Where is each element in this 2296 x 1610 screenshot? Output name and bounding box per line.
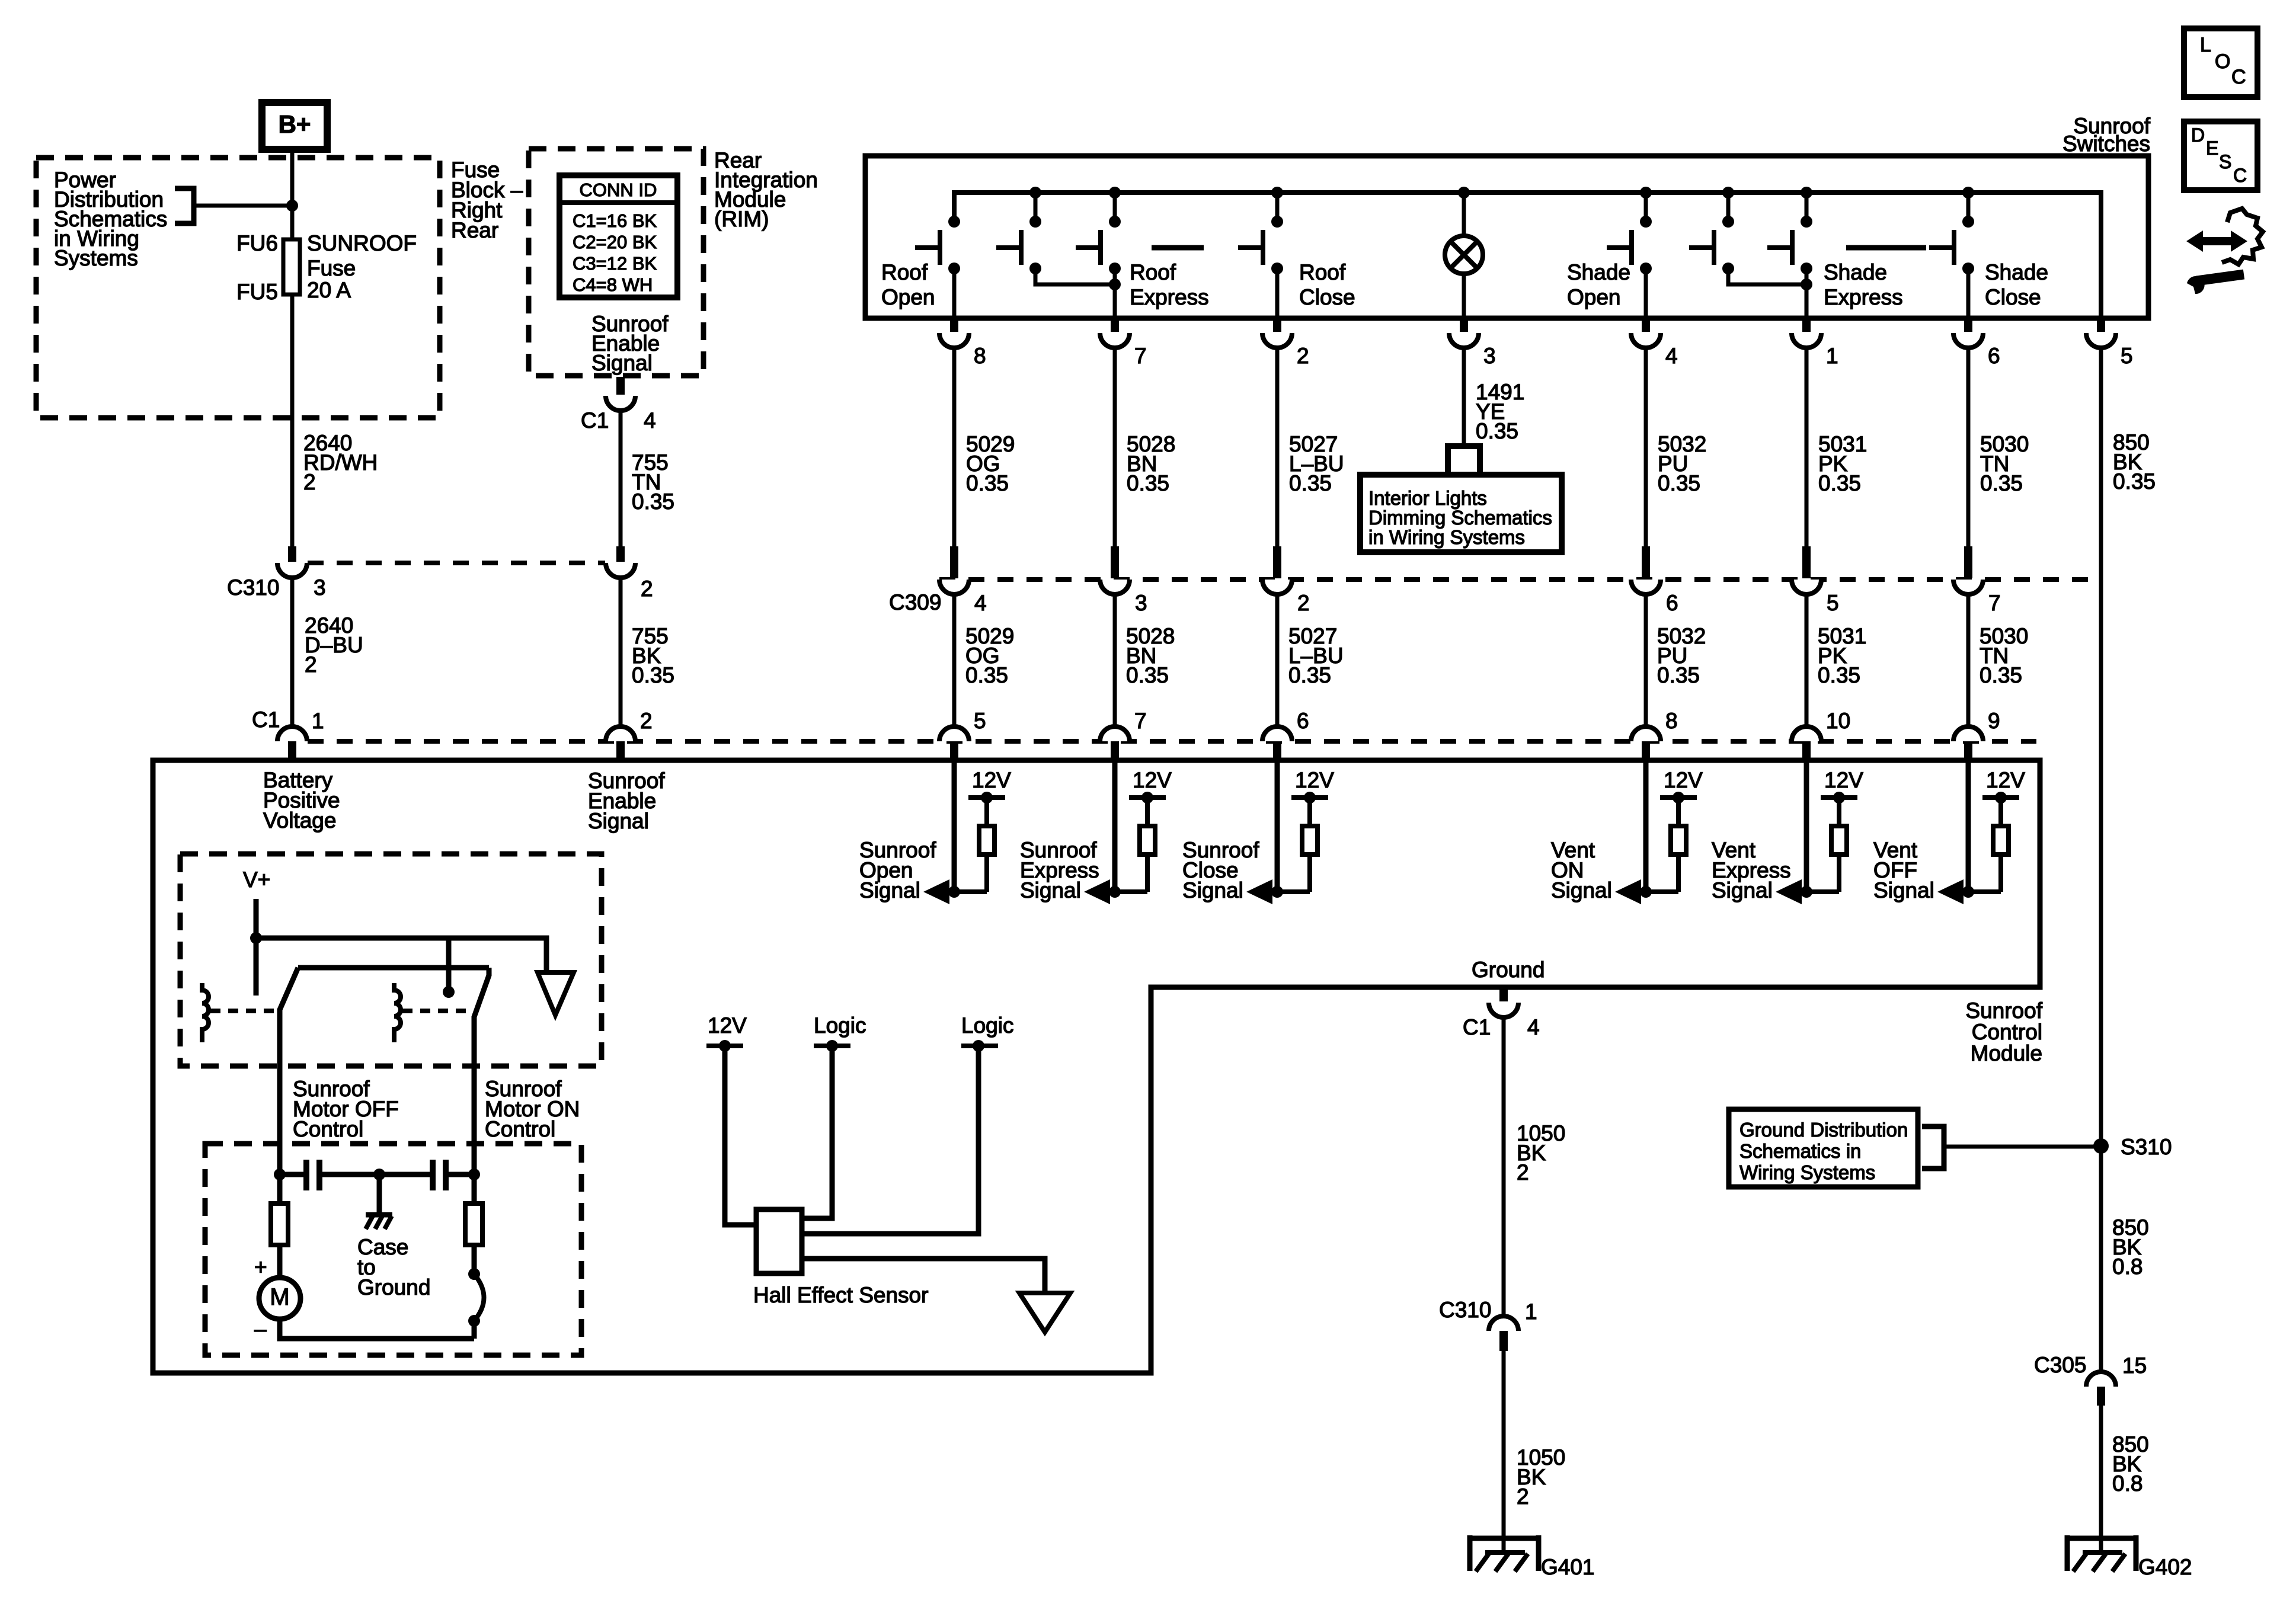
wire — [952, 348, 957, 546]
svg-text:Signal: Signal — [1873, 878, 1934, 902]
svg-text:3: 3 — [1135, 591, 1147, 615]
switch contact dots x=2916 — [1722, 216, 1734, 274]
svg-text:S: S — [2219, 151, 2231, 172]
svg-text:C1: C1 — [252, 708, 280, 732]
svg-text:Close: Close — [1299, 285, 1355, 309]
svg-text:Open: Open — [881, 285, 935, 309]
relay common bar — [298, 965, 489, 971]
connector C305 pin 15 — [2086, 1372, 2116, 1406]
svg-text:7: 7 — [1134, 709, 1147, 733]
svg-text:C305: C305 — [2034, 1353, 2086, 1377]
connector C1 pin 9 — [1953, 726, 1983, 759]
DESC icon box — [2184, 121, 2257, 190]
wire label 5029 OG row2 — [965, 624, 1014, 687]
svg-text:0.35: 0.35 — [965, 663, 1008, 687]
svg-text:2: 2 — [1297, 344, 1309, 368]
svg-text:C1: C1 — [1463, 1015, 1491, 1039]
svg-text:G402: G402 — [2138, 1555, 2192, 1579]
svg-text:C3=12 BK: C3=12 BK — [573, 253, 657, 274]
svg-text:Shade: Shade — [1985, 260, 2048, 284]
svg-text:0.35: 0.35 — [632, 489, 674, 514]
dashed line C1 row — [308, 739, 2036, 744]
wire — [952, 594, 957, 726]
wire label 5028 BN row2 — [1126, 624, 1175, 687]
wire label 1050 BK 2 lower — [1517, 1445, 1565, 1509]
mechanical link shade — [1846, 245, 1926, 251]
svg-text:Systems: Systems — [54, 246, 138, 270]
svg-text:2: 2 — [1517, 1484, 1529, 1509]
svg-text:1: 1 — [1826, 344, 1838, 368]
signal circuit Sunroof Express Signal — [1084, 760, 1166, 904]
signal circuit Sunroof Open Signal — [923, 760, 1005, 904]
label Case to Ground — [357, 1235, 430, 1299]
switch connector pin 2 — [1262, 318, 1292, 348]
case ground stub — [377, 1174, 382, 1214]
svg-text:6: 6 — [1988, 344, 2000, 368]
svg-text:9: 9 — [1988, 709, 2000, 733]
svg-text:0.35: 0.35 — [1818, 471, 1861, 495]
wire lamp to pointer — [1462, 348, 1466, 446]
junction dot — [286, 200, 298, 212]
connector C1 pin 2 — [606, 726, 635, 759]
switch connector pin 8 — [939, 318, 969, 348]
svg-text:Hall Effect Sensor: Hall Effect Sensor — [753, 1283, 928, 1307]
svg-text:Schematics in: Schematics in — [1739, 1140, 1861, 1162]
switch connector pin 6 — [1953, 318, 1983, 348]
switch connector pin 1 — [1792, 318, 1821, 348]
svg-text:0.8: 0.8 — [2112, 1471, 2142, 1496]
svg-text:+: + — [254, 1255, 267, 1279]
switch connector pin 5 — [2086, 318, 2116, 348]
svg-text:C: C — [2231, 66, 2246, 88]
connector C1 pin 7 — [1100, 726, 1130, 759]
bus junction dots — [1029, 187, 1974, 199]
wire — [1805, 594, 1809, 726]
svg-text:Shade: Shade — [1567, 260, 1630, 284]
connector C309 pin 5 — [1792, 546, 1821, 594]
svg-text:5: 5 — [2121, 344, 2133, 368]
svg-text:0.35: 0.35 — [1289, 471, 1332, 495]
switch actuator x=3048 — [1767, 230, 1792, 265]
junction dot center — [373, 1169, 385, 1180]
relay2 feed drop — [446, 938, 452, 988]
svg-text:Logic: Logic — [814, 1013, 866, 1038]
wire 2640 D-BU segment — [290, 578, 295, 726]
wire — [1275, 594, 1280, 726]
svg-text:Signal: Signal — [588, 809, 649, 833]
switch contact dots x=2155 — [1271, 216, 1283, 274]
svg-text:in Wiring Systems: in Wiring Systems — [1368, 526, 1525, 548]
wire fuse to C310 — [290, 295, 295, 546]
wire label 1491 YE — [1476, 380, 1524, 443]
label Sunroof Enable Signal (RIM) — [591, 312, 669, 375]
wire — [1113, 348, 1117, 546]
connector C1 pin 6 — [1262, 726, 1292, 759]
connector C1 pin 1 — [277, 726, 307, 759]
svg-text:12V: 12V — [972, 768, 1011, 792]
svg-text:Ground: Ground — [357, 1275, 430, 1299]
motor dashed box — [205, 1144, 581, 1355]
wire 1050 BK — [1502, 1017, 1506, 1319]
wire bracket to node — [194, 204, 292, 208]
wire V+ — [254, 899, 259, 996]
svg-text:0.35: 0.35 — [966, 471, 1009, 495]
svg-text:2: 2 — [640, 709, 653, 733]
svg-text:15: 15 — [2122, 1353, 2147, 1378]
motor bottom wire — [280, 1319, 474, 1339]
connector C1 pin 4 of RIM — [606, 377, 635, 411]
svg-text:12V: 12V — [1986, 768, 2025, 792]
Interior Lights Dimming box — [1360, 475, 1562, 552]
wire label 1050 BK 2 — [1517, 1121, 1565, 1185]
svg-text:L: L — [2200, 34, 2211, 56]
svg-text:Close: Close — [1985, 285, 2041, 309]
pointer bracket to interior lights box — [1448, 446, 1480, 474]
signal circuit Vent ON Signal — [1615, 760, 1697, 904]
switch labels — [881, 260, 935, 309]
switch contact dots x=2777 — [1640, 216, 1652, 274]
svg-text:O: O — [2215, 50, 2230, 73]
connector C310 pin 3 — [277, 546, 307, 578]
svg-text:C1=16 BK: C1=16 BK — [573, 210, 657, 231]
svg-text:0.35: 0.35 — [1288, 663, 1331, 687]
power node B+ — [262, 103, 327, 149]
motor M — [259, 1278, 300, 1319]
svg-text:Fuse: Fuse — [307, 256, 356, 280]
label SUNROOF Fuse 20 A — [307, 231, 417, 302]
svg-text:Interior Lights: Interior Lights — [1368, 487, 1487, 509]
svg-text:Open: Open — [1567, 285, 1621, 309]
wire label 5028 BN — [1127, 432, 1175, 495]
svg-text:B+: B+ — [279, 110, 311, 138]
svg-text:Express: Express — [1824, 285, 1903, 309]
label Sunroof Close Signal — [1182, 838, 1259, 902]
wire 1050 BK 2 lower — [1502, 1351, 1506, 1539]
svg-text:0.35: 0.35 — [1818, 663, 1860, 687]
wire label 850 BK 0.8 — [2112, 1215, 2149, 1279]
svg-text:2: 2 — [641, 577, 653, 601]
svg-text:S310: S310 — [2121, 1135, 2172, 1159]
svg-text:2: 2 — [1517, 1160, 1529, 1185]
svg-text:0.8: 0.8 — [2112, 1254, 2142, 1279]
svg-text:0.35: 0.35 — [1980, 663, 2022, 687]
wire 12V to hall — [725, 1046, 756, 1225]
connector C309 pin 7 — [1953, 546, 1983, 594]
LOC icon box — [2184, 28, 2257, 97]
fuse FU6/FU5 SUNROOF 20A — [283, 239, 300, 295]
svg-text:(RIM): (RIM) — [714, 207, 769, 231]
label Sunroof Switches — [2062, 114, 2151, 156]
svg-text:C310: C310 — [1439, 1298, 1491, 1322]
lamp drop wire — [1462, 193, 1466, 236]
svg-text:FU6: FU6 — [236, 231, 278, 255]
svg-text:0.35: 0.35 — [1980, 471, 2023, 495]
switch actuator x=1747 — [996, 230, 1021, 265]
wire label 850 BK 0.8 lower — [2112, 1432, 2149, 1496]
label Sunroof Motor OFF Control — [293, 1077, 399, 1141]
svg-text:0.35: 0.35 — [1126, 663, 1169, 687]
connector C1 pin 8 — [1631, 726, 1661, 759]
12V tap — [706, 1040, 743, 1052]
wire — [1644, 594, 1648, 726]
switch actuator x=2155 — [1238, 230, 1263, 265]
svg-text:Switches: Switches — [2062, 132, 2150, 156]
wire label 5032 PU — [1658, 432, 1706, 495]
wire label 5030 TN row2 — [1980, 624, 2028, 687]
label Battery Positive Voltage — [263, 768, 340, 833]
svg-text:4: 4 — [1665, 344, 1678, 368]
svg-text:12V: 12V — [1133, 768, 1172, 792]
capacitor C-left — [280, 1160, 379, 1190]
label Vent Express Signal — [1712, 838, 1791, 902]
chassis ground (case) — [366, 1215, 392, 1229]
relay2 blade — [474, 968, 489, 1174]
sunroof switches box — [865, 156, 2148, 318]
wire — [1966, 348, 1971, 546]
svg-text:C1: C1 — [581, 408, 609, 433]
wire label 5029 OG — [966, 432, 1015, 495]
connector C1 pin 4 (ground) — [1489, 987, 1518, 1017]
svg-text:20 A: 20 A — [307, 278, 351, 302]
svg-text:E: E — [2206, 137, 2218, 159]
svg-text:7: 7 — [1134, 344, 1147, 368]
connector C1 pin 5 — [939, 726, 969, 759]
svg-text:0.35: 0.35 — [1127, 471, 1169, 495]
svg-text:Signal: Signal — [1020, 878, 1081, 902]
svg-text:Logic: Logic — [961, 1013, 1013, 1038]
wire 755 BK segment — [619, 578, 623, 726]
wire 850 BK down right side — [2099, 348, 2103, 1372]
relay dashed box — [180, 854, 602, 1066]
svg-text:2: 2 — [303, 470, 316, 494]
junction dot V+ rail — [250, 932, 262, 944]
svg-text:8: 8 — [974, 344, 986, 368]
repair icon (arrow + wrench) — [2186, 209, 2263, 294]
Rear Integration Module dashed box — [529, 149, 703, 376]
hall effect sensor box — [756, 1209, 802, 1273]
relay1 blade — [280, 968, 298, 1174]
svg-text:7: 7 — [1988, 591, 2001, 615]
svg-text:Shade: Shade — [1824, 260, 1887, 284]
wire label 755 TN 0.35 — [632, 450, 674, 514]
label Fuse Block - Right Rear — [451, 158, 523, 242]
junction dot left — [274, 1169, 286, 1180]
svg-text:C4=8 WH: C4=8 WH — [573, 274, 653, 295]
resistor right — [465, 1174, 482, 1274]
shade express pair link — [1728, 268, 1806, 284]
connector C310 pin 1 — [1489, 1316, 1518, 1351]
switch blade (motor) — [468, 1268, 484, 1339]
logic1 tap — [814, 1040, 850, 1052]
ground triangle (module internal) — [538, 972, 574, 1015]
wire label 850 BK — [2113, 430, 2156, 494]
svg-text:3: 3 — [314, 575, 326, 600]
signal circuit Vent Express Signal — [1776, 760, 1857, 904]
svg-text:0.35: 0.35 — [1657, 663, 1700, 687]
switch actuator x=3321 — [1929, 230, 1954, 265]
svg-text:5: 5 — [974, 709, 986, 733]
connector C309 pin 4 — [939, 546, 969, 594]
ground G402 — [2067, 1535, 2136, 1571]
svg-text:6: 6 — [1297, 709, 1309, 733]
switch output wires — [954, 268, 1968, 318]
capacitor C-right — [379, 1160, 474, 1190]
svg-text:V+: V+ — [243, 868, 270, 892]
svg-text:12V: 12V — [708, 1013, 747, 1038]
lamp wire to box bottom — [1462, 274, 1466, 318]
sunroof control module box — [153, 760, 2040, 1373]
resistor left — [271, 1174, 288, 1278]
switch contact dots x=1610 — [948, 216, 960, 274]
switch actuator x=1610 — [915, 230, 940, 265]
svg-text:Control: Control — [485, 1117, 555, 1141]
relay link 1 (dashed) — [210, 1009, 274, 1013]
dashed line C310 row — [308, 561, 605, 565]
svg-text:1: 1 — [312, 709, 324, 733]
wire to S310 — [1944, 1145, 2101, 1149]
switch contact dots x=1747 — [1029, 216, 1041, 274]
svg-text:Rear: Rear — [451, 218, 498, 242]
switch contact dots x=1881 — [1109, 216, 1121, 274]
label Sunroof Express Signal — [1020, 838, 1099, 902]
splice S310 — [2093, 1138, 2109, 1154]
hall output to ground — [802, 1259, 1045, 1293]
connector C1 pin 10 — [1792, 726, 1821, 759]
wire label 5027 L–BU — [1289, 432, 1344, 495]
label Vent ON Signal — [1551, 838, 1612, 902]
switch actuator x=2777 — [1607, 230, 1632, 265]
connector C309 pin 2 — [1262, 546, 1292, 594]
switch contact dots x=3048 — [1801, 216, 1812, 274]
svg-text:0.35: 0.35 — [2113, 469, 2156, 494]
wire label 2640 D-BU 2 — [305, 613, 363, 677]
svg-text:4: 4 — [974, 591, 987, 615]
svg-text:Control: Control — [1972, 1020, 2042, 1044]
wire label 5031 PK row2 — [1818, 624, 1866, 687]
logic2 tap — [961, 1040, 998, 1052]
svg-text:C: C — [2233, 165, 2247, 186]
label Sunroof Open Signal — [859, 838, 936, 902]
svg-text:C310: C310 — [227, 575, 279, 600]
svg-text:Signal: Signal — [1712, 878, 1773, 902]
svg-text:Dimming Schematics: Dimming Schematics — [1368, 507, 1552, 529]
svg-text:Sunroof: Sunroof — [1965, 998, 2042, 1023]
svg-text:FU5: FU5 — [236, 280, 278, 304]
wire label 5031 PK — [1818, 432, 1867, 495]
wire label 5032 PU row2 — [1657, 624, 1706, 687]
svg-text:4: 4 — [1527, 1015, 1540, 1039]
svg-text:D: D — [2191, 124, 2205, 146]
lamp (interior light) — [1445, 236, 1483, 274]
bracket to Power Distribution — [175, 188, 194, 223]
svg-text:10: 10 — [1826, 709, 1850, 733]
svg-text:Ground Distribution: Ground Distribution — [1739, 1119, 1908, 1141]
svg-text:3: 3 — [1483, 344, 1496, 368]
wire — [1644, 348, 1648, 546]
svg-text:Signal: Signal — [859, 878, 920, 902]
svg-text:Wiring Systems: Wiring Systems — [1739, 1161, 1875, 1183]
svg-text:Roof: Roof — [1299, 260, 1346, 284]
relay coil 1 — [202, 983, 209, 1042]
svg-text:5: 5 — [1827, 591, 1839, 615]
label Vent OFF Signal — [1873, 838, 1934, 902]
label Interior Lights Dimming Schematics in Wiring Systems — [1368, 487, 1552, 548]
svg-text:6: 6 — [1666, 591, 1678, 615]
fuse block dashed box — [36, 158, 440, 418]
wire label 5030 TN — [1980, 432, 2029, 495]
label Sunroof Motor ON Control — [485, 1077, 580, 1141]
wire label 5027 L–BU row2 — [1288, 624, 1344, 687]
svg-text:12V: 12V — [1824, 768, 1863, 792]
label Sunroof Control Module — [1965, 998, 2042, 1065]
svg-text:0.35: 0.35 — [1658, 471, 1700, 495]
svg-text:1: 1 — [1525, 1299, 1537, 1324]
svg-text:Signal: Signal — [1551, 878, 1612, 902]
relay link 2 (dashed) — [402, 1009, 467, 1013]
svg-text:12V: 12V — [1295, 768, 1334, 792]
svg-text:Express: Express — [1130, 285, 1209, 309]
svg-text:12V: 12V — [1664, 768, 1703, 792]
switch actuator x=1881 — [1076, 230, 1101, 265]
svg-text:Signal: Signal — [1182, 878, 1243, 902]
wire — [1966, 594, 1971, 726]
label Sunroof Enable Signal — [588, 769, 665, 833]
switch connector pin 3 — [1449, 318, 1479, 348]
wire 755 down — [619, 410, 623, 546]
label Rear Integration Module (RIM) — [714, 148, 818, 231]
svg-text:Roof: Roof — [1130, 260, 1176, 284]
label Power Distribution Schematics in Wiring Systems — [54, 168, 167, 270]
svg-text:0.35: 0.35 — [632, 663, 674, 687]
wire — [1113, 594, 1117, 726]
svg-text:Voltage: Voltage — [263, 808, 336, 833]
Ground Distribution box — [1729, 1109, 1918, 1187]
svg-text:0.35: 0.35 — [1476, 419, 1518, 443]
svg-text:4: 4 — [644, 408, 656, 433]
wire — [1805, 348, 1809, 546]
wire logic2 to hall — [802, 1046, 978, 1234]
wire B+ to fuse — [290, 149, 295, 239]
wire — [1275, 348, 1280, 546]
relay coil 2 — [394, 983, 401, 1042]
wire logic1 to hall — [802, 1046, 832, 1218]
svg-text:C309: C309 — [889, 590, 941, 614]
ground triangle (hall) — [1019, 1293, 1070, 1332]
label Ground Distribution Schematics in Wiring Systems — [1739, 1119, 1908, 1183]
svg-text:8: 8 — [1665, 709, 1678, 733]
svg-text:SUNROOF: SUNROOF — [307, 231, 417, 255]
svg-text:Signal: Signal — [591, 351, 653, 375]
bus wire in switch box — [954, 193, 2101, 318]
svg-text:Module: Module — [1971, 1041, 2042, 1065]
CONN ID table — [559, 175, 677, 297]
svg-text:Control: Control — [293, 1117, 363, 1141]
V+ rail — [256, 938, 546, 972]
switch contact dots x=3321 — [1962, 216, 1974, 274]
roof express pair link — [1035, 268, 1115, 284]
mechanical link roof — [1152, 245, 1204, 251]
wire to G402 — [2099, 1406, 2103, 1539]
switch connector pin 7 — [1100, 318, 1130, 348]
svg-text:C2=20 BK: C2=20 BK — [573, 232, 657, 252]
dashed line C309 row — [939, 577, 2101, 582]
connector C309 pin 3 — [1100, 546, 1130, 594]
svg-text:M: M — [270, 1284, 289, 1310]
svg-text:2: 2 — [305, 652, 317, 677]
bracket of ground distribution — [1922, 1126, 1944, 1169]
svg-text:–: – — [254, 1317, 267, 1341]
switch actuator x=2916 — [1689, 230, 1714, 265]
